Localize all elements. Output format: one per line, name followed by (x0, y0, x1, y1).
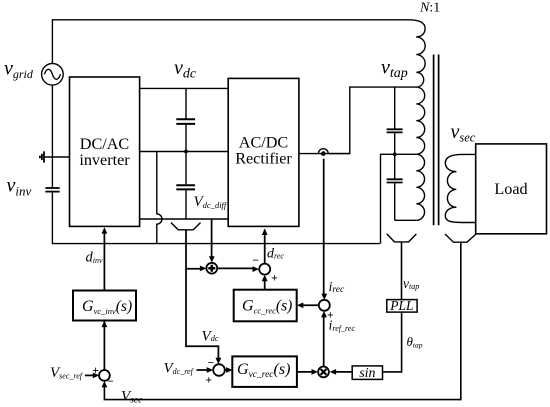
svg-text:vtap: vtap (403, 276, 419, 291)
svg-text:vsec: vsec (451, 121, 476, 145)
svg-text:−: − (107, 376, 114, 388)
svg-text:drec: drec (267, 246, 284, 261)
svg-text:Vdc_ref: Vdc_ref (164, 361, 195, 377)
svg-text:Load: Load (494, 180, 527, 198)
svg-text:Vdc: Vdc (202, 328, 219, 344)
svg-text:+: + (206, 374, 213, 386)
svg-text:θtap: θtap (407, 334, 423, 350)
svg-text:Gvc_inv(s): Gvc_inv(s) (82, 298, 132, 316)
svg-text:dinv: dinv (86, 250, 103, 266)
svg-text:inverter: inverter (79, 151, 130, 169)
svg-text:vtap: vtap (381, 56, 408, 81)
svg-text:−: − (208, 357, 215, 369)
svg-text:sin: sin (359, 366, 375, 381)
svg-text:vinv: vinv (7, 175, 32, 199)
svg-text:Gvc_rec(s): Gvc_rec(s) (237, 361, 290, 380)
svg-text:irec: irec (329, 280, 345, 295)
svg-text:Vsec_ref: Vsec_ref (50, 365, 84, 381)
svg-text:Vdc_diff: Vdc_diff (194, 194, 228, 210)
svg-text:−: − (252, 255, 259, 267)
svg-text:Gcc_rec(s): Gcc_rec(s) (242, 298, 292, 316)
svg-text:+: + (92, 365, 99, 377)
svg-text:+: + (271, 273, 278, 285)
svg-text:+: + (327, 310, 334, 322)
svg-text:Rectifier: Rectifier (235, 150, 292, 168)
svg-text:N:1: N:1 (419, 1, 440, 16)
svg-text:PLL: PLL (389, 298, 413, 313)
svg-text:vdc: vdc (174, 57, 197, 82)
svg-text:Vsec: Vsec (121, 389, 143, 406)
svg-text:vgrid: vgrid (4, 58, 34, 82)
